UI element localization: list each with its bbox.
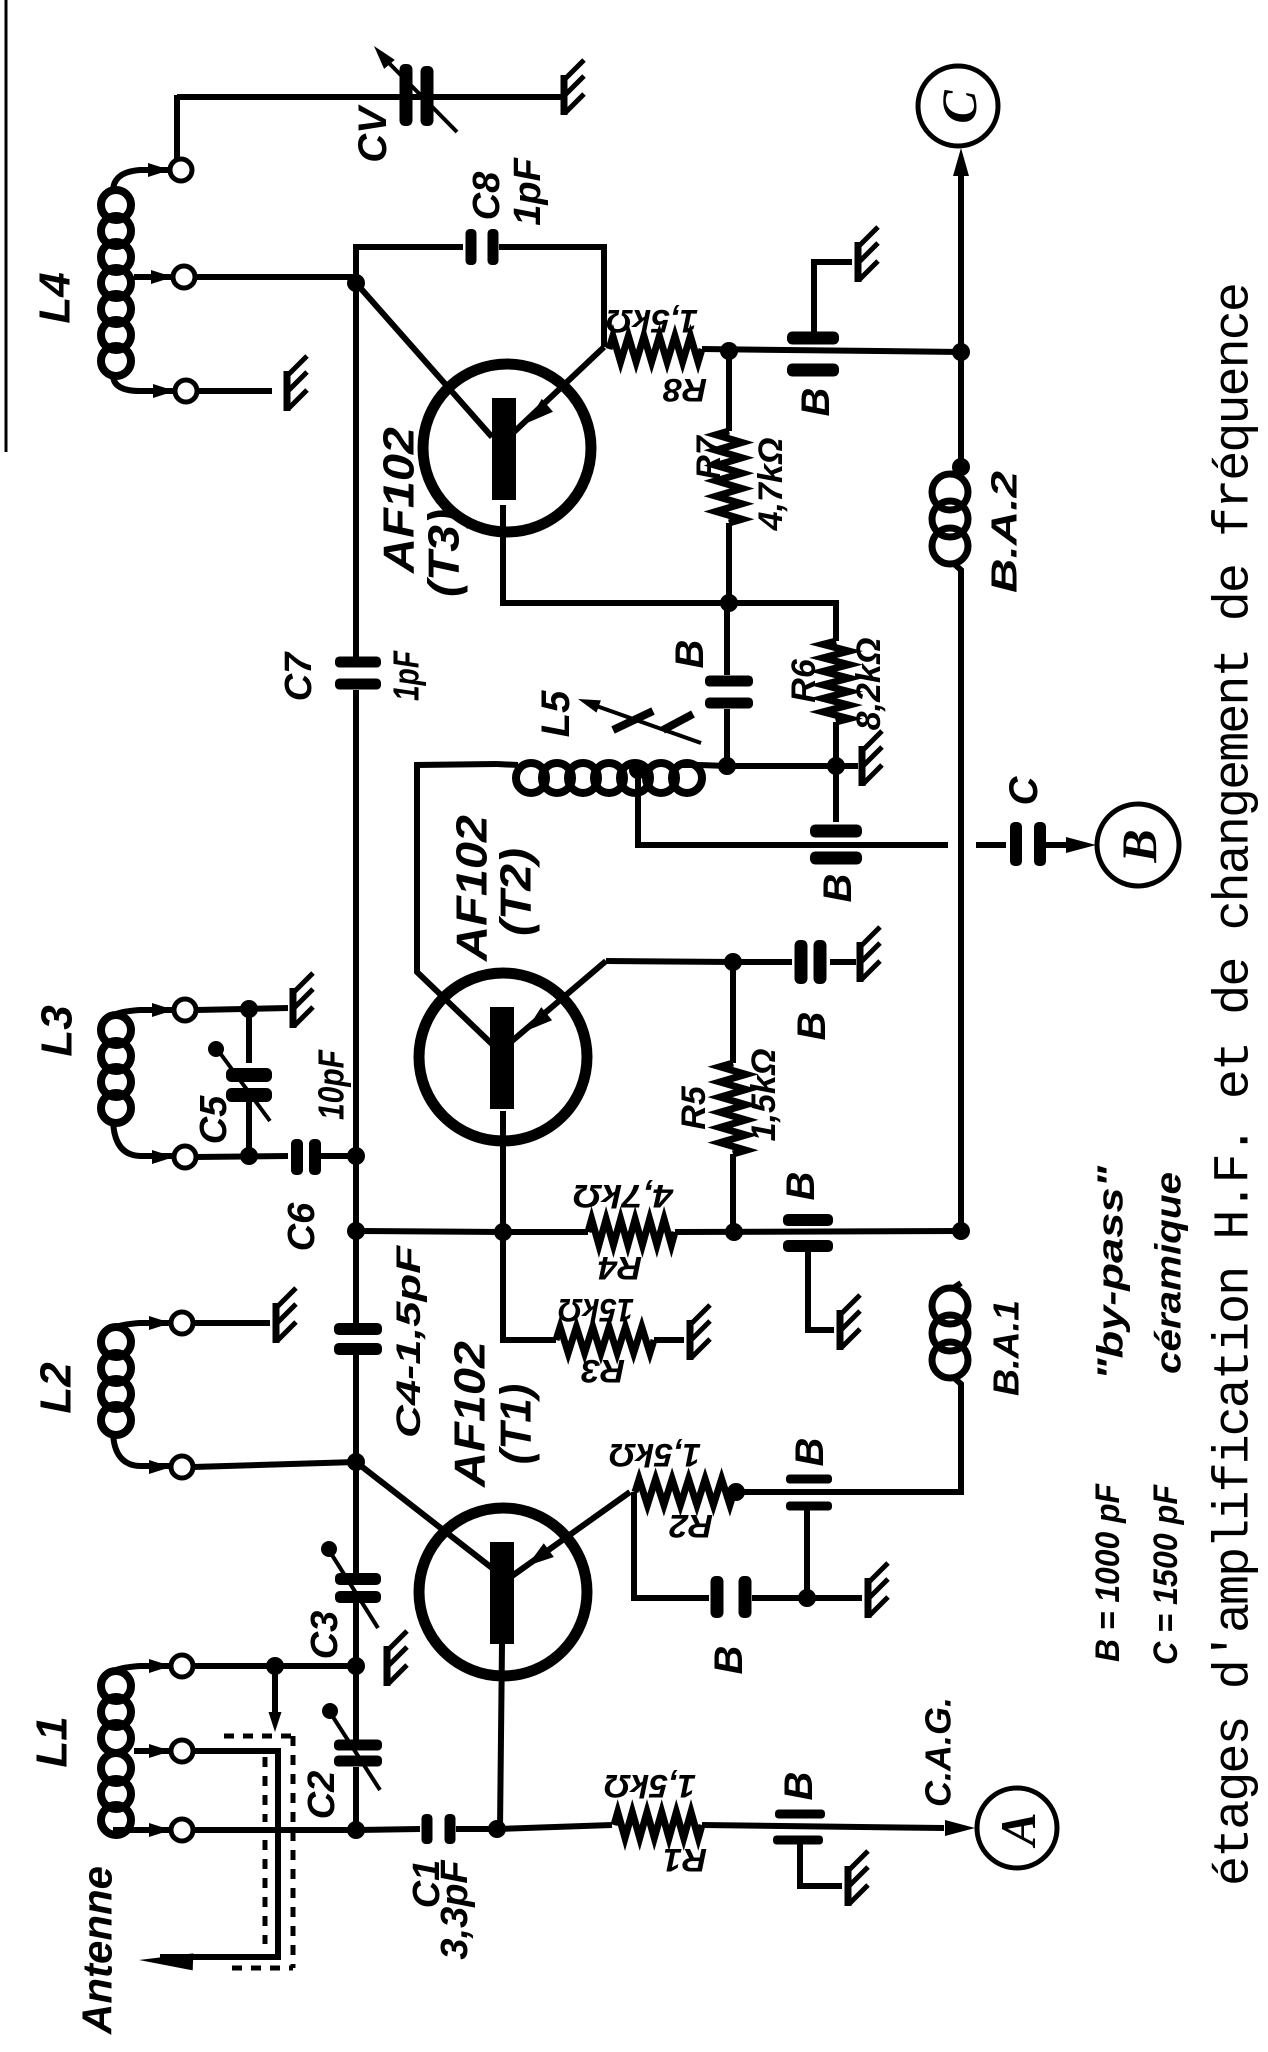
- wire stub L5 gnd to B cap: [833, 766, 839, 822]
- shield dashed outline: [224, 1734, 293, 1739]
- terminal L4 top: [148, 163, 170, 177]
- resistor R7 4.7k: [716, 431, 742, 523]
- svg-text:8,2kΩ: 8,2kΩ: [850, 638, 888, 731]
- svg-text:L5: L5: [534, 690, 578, 737]
- coil L3: [101, 1015, 131, 1045]
- arrow C5 adjust: [220, 1053, 270, 1121]
- node C5 top: [240, 1000, 258, 1018]
- svg-text:céramique: céramique: [1148, 1172, 1189, 1374]
- ferrite core of L5: [613, 711, 653, 730]
- node L5 tap: [629, 761, 647, 779]
- capacitor C 1500pF to B: [1010, 822, 1022, 866]
- terminal L1 bottom: [149, 1823, 171, 1837]
- ground L1 top node: [384, 1646, 391, 1686]
- wire BA2 to B+ node: [958, 579, 964, 1231]
- svg-text:1pF: 1pF: [386, 650, 427, 701]
- capacitor C7 1pF: [335, 657, 381, 668]
- wire L4 bottom to ground: [197, 388, 272, 394]
- terminal circle C: [918, 66, 998, 146]
- wire main line below C4: [353, 1355, 359, 1462]
- svg-text:1pF: 1pF: [507, 156, 549, 225]
- svg-text:C8: C8: [466, 171, 508, 220]
- node T2 base: [494, 1223, 512, 1241]
- wire T2 base to R3: [503, 1232, 556, 1340]
- capacitor B bypass at R1: [775, 1810, 825, 1819]
- svg-text:15kΩ: 15kΩ: [558, 1292, 634, 1328]
- svg-text:R1: R1: [663, 1842, 707, 1878]
- capacitor B bypass at R8: [787, 332, 839, 345]
- ground R3: [687, 1320, 694, 1360]
- page edge artifact: [5, 0, 8, 452]
- capacitor C1 3.3pF: [422, 1814, 433, 1844]
- ground L2 top: [273, 1303, 280, 1343]
- node L1 bottom main: [347, 1821, 365, 1839]
- arrow C2 adjust: [333, 1717, 380, 1790]
- wire C1 to T1 base node: [456, 1826, 497, 1832]
- terminal L4 bottom: [153, 384, 175, 398]
- svg-text:AF102: AF102: [446, 1340, 495, 1488]
- svg-text:B: B: [794, 388, 838, 417]
- svg-text:AF102: AF102: [448, 814, 497, 962]
- node L5-Bcap: [718, 757, 736, 775]
- choke B.A.1: [932, 1288, 968, 1324]
- transistor T3 AF102: [423, 364, 591, 532]
- ground at R8 bypass: [855, 242, 862, 282]
- node main-C6: [347, 1147, 365, 1165]
- arrow into B terminal: [1066, 837, 1096, 853]
- arrow antenna: [139, 1953, 193, 1970]
- svg-text:1,5kΩ: 1,5kΩ: [606, 303, 698, 339]
- coil L1: [101, 1671, 131, 1701]
- svg-text:1,5kΩ: 1,5kΩ: [609, 1437, 701, 1473]
- svg-text:L1: L1: [28, 1716, 77, 1767]
- coil L4: [101, 190, 131, 220]
- wire T2 emitter line: [606, 961, 733, 962]
- ground at R1 bypass: [845, 1866, 852, 1906]
- svg-text:"by-pass": "by-pass": [1090, 1165, 1131, 1380]
- node R2 right: [727, 1483, 745, 1501]
- wire C rail to BA2: [958, 352, 964, 470]
- capacitor B bypass at R2: [786, 1475, 832, 1484]
- transistor T1 AF102: [419, 1508, 587, 1676]
- svg-text:L2: L2: [32, 1362, 81, 1414]
- wire B cap to ground at R8: [814, 262, 852, 332]
- wire L2 bottom to main: [193, 1462, 356, 1467]
- svg-text:4,7kΩ: 4,7kΩ: [752, 438, 790, 532]
- resistor R3 15k: [556, 1327, 654, 1353]
- ground L5 line: [859, 746, 866, 786]
- svg-text:(T2): (T2): [492, 848, 541, 936]
- node L5-R6: [827, 757, 845, 775]
- svg-text:B: B: [668, 640, 712, 669]
- svg-text:étages d'amplification H.F. et: étages d'amplification H.F. et de change…: [1207, 284, 1264, 1886]
- svg-text:C: C: [931, 90, 987, 124]
- wire R3 to ground: [654, 1337, 684, 1343]
- capacitor C2: [334, 1740, 382, 1751]
- wire antenna lead: [160, 1751, 278, 1957]
- wire T1 base node to R1: [497, 1825, 612, 1829]
- arrow L5 adjust: [588, 703, 701, 743]
- svg-text:R8: R8: [663, 372, 707, 408]
- wire C3 to L1 node: [353, 1603, 359, 1666]
- wire T2 base lead: [500, 1111, 506, 1232]
- svg-text:C6: C6: [281, 1202, 323, 1251]
- wire B cap to ground on R4 line: [808, 1252, 834, 1330]
- terminal L1 middle: [149, 1744, 171, 1758]
- capacitor C3: [335, 1573, 381, 1585]
- svg-text:C.A.G.: C.A.G.: [918, 1697, 959, 1807]
- svg-text:3,3pF: 3,3pF: [434, 1859, 476, 1960]
- capacitor B bypass on B line: [810, 825, 862, 838]
- svg-text:R2: R2: [669, 1508, 713, 1544]
- svg-text:L4: L4: [31, 272, 80, 323]
- wire C6 to main line: [321, 1153, 356, 1159]
- node main-R4line: [347, 1222, 365, 1240]
- svg-text:10pF: 10pF: [311, 1049, 352, 1120]
- node emitter gnd line: [798, 1589, 816, 1607]
- capacitor B series at T2 emitter: [733, 959, 792, 965]
- wire L5 to ground: [700, 765, 858, 766]
- svg-text:(T1): (T1): [492, 1384, 541, 1465]
- capacitor B series at T1 emitter: [711, 1576, 724, 1618]
- node L1 shield: [266, 1657, 284, 1675]
- node BA2 top: [952, 458, 970, 476]
- svg-text:B = 1000 pF: B = 1000 pF: [1089, 1483, 1127, 1662]
- wire to ground T1 emitter: [807, 1595, 862, 1601]
- resistor R8 1.5k: [609, 336, 702, 362]
- svg-text:C4-1,5pF: C4-1,5pF: [390, 1244, 428, 1438]
- ground T2 emitter: [857, 942, 864, 982]
- coil L5: [516, 763, 546, 793]
- variable capacitor CV: [400, 64, 413, 126]
- wire R6 bottom stub: [833, 722, 839, 766]
- wire main line middle: [353, 690, 359, 1323]
- wire B cap to ground at R1: [800, 1844, 842, 1886]
- wire R5 bottom stub: [730, 1154, 736, 1232]
- transistor T2 AF102: [419, 973, 587, 1141]
- node T2 emitter: [724, 953, 742, 971]
- wire L5 tap to B line: [638, 770, 948, 845]
- node main-L2: [347, 1453, 365, 1471]
- svg-text:C7: C7: [278, 651, 320, 701]
- svg-text:B: B: [1111, 829, 1167, 863]
- node C rail top: [952, 343, 970, 361]
- capacitor C4: [334, 1323, 382, 1335]
- terminal circle B: [1097, 804, 1179, 886]
- svg-text:Antenne: Antenne: [74, 1866, 121, 2035]
- wire C rail to arrow: [958, 160, 964, 352]
- arrow into C terminal: [953, 148, 969, 176]
- svg-text:A: A: [990, 1812, 1046, 1848]
- ground on R4 line: [837, 1310, 844, 1350]
- terminal L3 top: [152, 1003, 174, 1017]
- coil L2: [101, 1327, 131, 1357]
- terminal L1 top: [149, 1659, 171, 1673]
- terminal L2 bottom: [149, 1460, 171, 1474]
- svg-text:B: B: [779, 1172, 823, 1201]
- wire R5 top stub: [730, 962, 736, 1063]
- svg-text:1,5kΩ: 1,5kΩ: [745, 1049, 783, 1142]
- wire to C1: [356, 1829, 420, 1830]
- wire C cap to B terminal: [1046, 842, 1066, 848]
- capacitor C8 1pF: [466, 229, 477, 265]
- wire main line top: [353, 283, 359, 658]
- terminal circle A: [977, 1788, 1057, 1868]
- node osc top: [347, 274, 365, 292]
- wire R2 left down: [634, 1492, 709, 1598]
- svg-text:4,7kΩ: 4,7kΩ: [573, 1178, 674, 1214]
- capacitor C6: [291, 1139, 303, 1175]
- svg-text:B.A.1: B.A.1: [986, 1300, 1027, 1396]
- svg-text:B.A.2: B.A.2: [984, 471, 1025, 593]
- wire L3 top to ground: [196, 1008, 288, 1010]
- svg-text:C3: C3: [304, 1611, 346, 1660]
- wire T3 collector diagonal: [356, 283, 492, 437]
- wire L3 bottom to C6: [196, 1156, 288, 1157]
- arrow CV adjust: [383, 57, 457, 132]
- svg-text:R6: R6: [785, 658, 823, 703]
- wire B line right of crossing: [976, 842, 1006, 848]
- resistor R5 1.5k: [720, 1063, 746, 1154]
- resistor R4 4.7k: [588, 1219, 675, 1245]
- ground L3 top: [290, 988, 297, 1028]
- svg-text:C5: C5: [193, 1095, 235, 1144]
- wire T1 base lead: [500, 1644, 502, 1829]
- wire R1 to A terminal: [702, 1825, 944, 1828]
- svg-text:1,5kΩ: 1,5kΩ: [604, 1768, 696, 1804]
- wire R7 top stub: [726, 351, 732, 431]
- arrow into A terminal: [945, 1820, 975, 1836]
- wire main to T2 base: [356, 1231, 503, 1232]
- resistor R2 1.5k: [635, 1479, 734, 1505]
- svg-text:C = 1500 pF: C = 1500 pF: [1147, 1484, 1185, 1665]
- wire CV top rail: [177, 94, 561, 100]
- resistor R6 8.2k: [823, 641, 849, 722]
- svg-text:B: B: [707, 1646, 751, 1675]
- wire L1 bottom to C1: [193, 1827, 356, 1833]
- wire node to C8: [356, 247, 463, 283]
- wire L4 top terminal to CV rail: [174, 95, 180, 160]
- svg-text:L3: L3: [33, 1005, 82, 1056]
- capacitor B bypass on R4 line: [783, 1214, 833, 1226]
- choke B.A.2: [932, 474, 968, 510]
- wire C2 to L1 bottom line: [353, 1767, 359, 1830]
- svg-text:B: B: [790, 1012, 834, 1041]
- wire L1 top to main node: [193, 1663, 356, 1669]
- wire L1 node to C2: [353, 1666, 359, 1741]
- wire R7 bottom stub: [726, 523, 732, 603]
- svg-text:R3: R3: [581, 1353, 625, 1389]
- wire R8 to C rail: [702, 349, 961, 352]
- wire R4 ends: [503, 1229, 588, 1235]
- wire T2 collector corner: [417, 764, 497, 1046]
- svg-text:(T3): (T3): [420, 509, 469, 597]
- node T1 base: [488, 1820, 506, 1838]
- ground L4 bottom: [284, 371, 291, 411]
- wire L4 middle tap to node: [195, 277, 356, 283]
- terminal L2 top: [149, 1316, 171, 1330]
- svg-text:B: B: [777, 1772, 821, 1801]
- node B+ rail: [952, 1222, 970, 1240]
- wire L2 top to ground: [193, 1320, 270, 1326]
- arrow C3 adjust: [332, 1555, 378, 1628]
- wire T1 collector diagonal: [356, 1462, 492, 1568]
- terminal L4 middle tap: [151, 270, 173, 284]
- wire main line to C3: [353, 1462, 359, 1575]
- svg-text:C: C: [1002, 775, 1046, 805]
- node R8-R7: [720, 342, 738, 360]
- ground CV rail: [561, 75, 568, 115]
- node R4-R5: [725, 1223, 743, 1241]
- wire shield stub: [272, 1666, 278, 1720]
- svg-text:B: B: [788, 1438, 832, 1467]
- resistor R1 1.5k: [614, 1812, 702, 1838]
- svg-text:AF102: AF102: [375, 426, 424, 574]
- wire T3 base line: [503, 505, 836, 641]
- svg-text:R4: R4: [598, 1250, 642, 1286]
- node C5 bottom: [240, 1147, 258, 1165]
- node T3 base-R7: [720, 594, 738, 612]
- node main-L1top: [347, 1657, 365, 1675]
- svg-text:B: B: [816, 874, 860, 903]
- wire BA1 to R2: [736, 1392, 961, 1492]
- trimmer C5: [246, 1009, 252, 1063]
- svg-text:R7: R7: [690, 434, 728, 480]
- ground T1 emitter: [865, 1578, 872, 1618]
- svg-text:C2: C2: [301, 1771, 343, 1820]
- capacitor B bypass at T3 base: [724, 603, 730, 675]
- terminal L3 bottom: [152, 1150, 174, 1164]
- svg-text:CV: CV: [351, 104, 395, 163]
- wire C8 to R8 corner: [499, 247, 604, 347]
- svg-text:R5: R5: [675, 1085, 713, 1130]
